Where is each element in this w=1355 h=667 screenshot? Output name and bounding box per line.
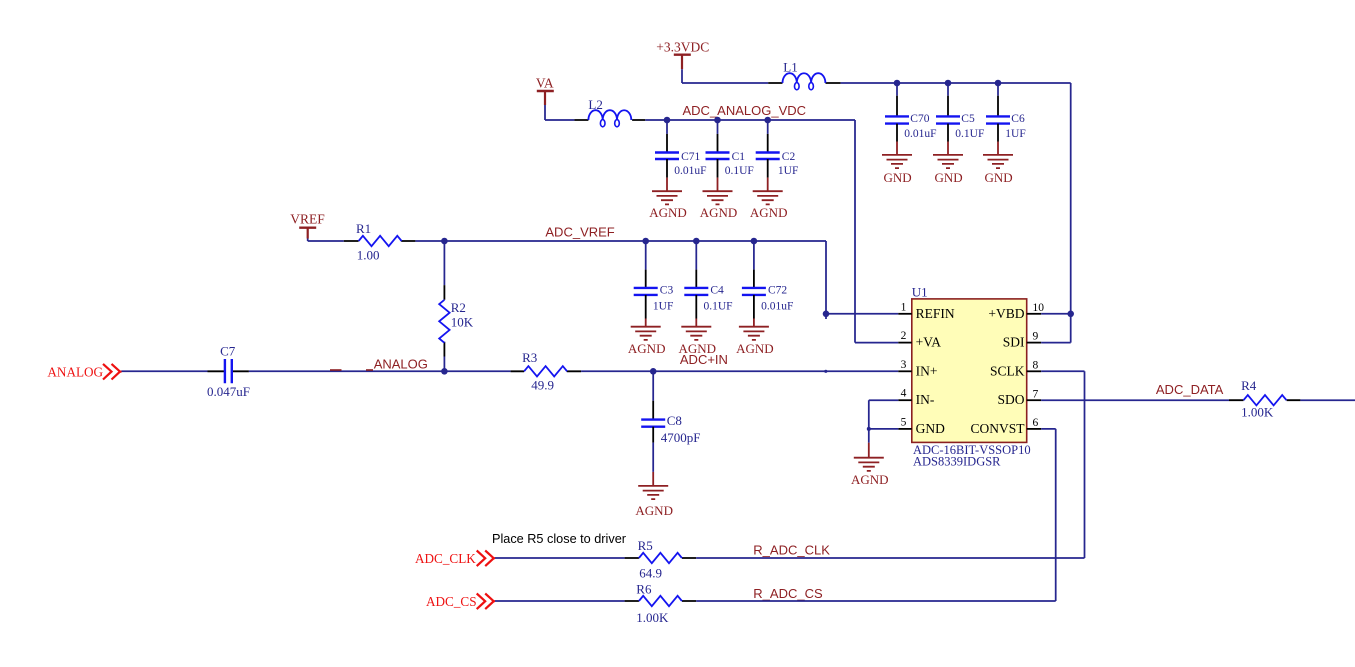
svg-text:GND: GND <box>985 170 1013 185</box>
svg-text:C5: C5 <box>961 113 975 125</box>
svg-text:7: 7 <box>1033 388 1039 400</box>
wire top rail right of L1 <box>841 82 1071 84</box>
svg-text:9: 9 <box>1033 331 1039 343</box>
svg-text:0.047uF: 0.047uF <box>207 384 250 399</box>
capacitor C4 <box>684 241 732 319</box>
port ANALOG <box>47 364 121 380</box>
resistor R4 <box>1229 378 1300 419</box>
wire ANALOG to C7 <box>122 370 208 372</box>
port ADC_CS <box>426 594 495 610</box>
pin 4 IN- <box>898 388 935 408</box>
junction ADC_VREF at R2 <box>441 238 448 245</box>
wire C8 to AGND <box>652 443 654 472</box>
svg-text:ADC_ANALOG_VDC: ADC_ANALOG_VDC <box>683 103 807 118</box>
wire +VBD to rail <box>1041 313 1071 315</box>
capacitor C70 <box>885 83 937 142</box>
resistor R2 <box>439 241 474 371</box>
svg-text:SCLK: SCLK <box>990 363 1025 378</box>
svg-text:C72: C72 <box>768 285 787 297</box>
svg-text:ADS8339IDGSR: ADS8339IDGSR <box>913 455 1001 469</box>
junction REFIN corner <box>823 311 830 318</box>
svg-text:IN+: IN+ <box>916 363 938 378</box>
inductor L1 <box>768 60 840 90</box>
junction ADC+IN at C8 <box>650 368 657 375</box>
capacitor C2 <box>756 120 799 178</box>
svg-text:ANALOG: ANALOG <box>47 364 103 379</box>
svg-text:AGND: AGND <box>851 472 889 487</box>
ground AGND under C71 <box>649 178 687 221</box>
pin 6 CONVST <box>970 417 1041 436</box>
svg-text:1UF: 1UF <box>653 300 673 312</box>
svg-text:6: 6 <box>1033 417 1039 429</box>
ground GND under C6 <box>983 142 1013 186</box>
junction top rail at C70 <box>894 80 901 87</box>
capacitor C71 <box>655 120 706 178</box>
svg-text:+VBD: +VBD <box>988 306 1024 321</box>
wire R_ADC_CS <box>696 600 1055 602</box>
svg-text:R4: R4 <box>1241 378 1257 393</box>
wire IN- / GND to AGND <box>869 400 899 443</box>
svg-text:10: 10 <box>1033 302 1045 314</box>
pin 9 SDI <box>1003 331 1041 350</box>
inductor L2 <box>574 97 645 127</box>
pin 8 SCLK <box>990 359 1041 378</box>
svg-text:C1: C1 <box>732 151 746 163</box>
svg-text:SDI: SDI <box>1003 335 1025 350</box>
wire top rail left of L1 <box>682 82 768 84</box>
svg-text:IN-: IN- <box>916 392 935 407</box>
svg-text:R6: R6 <box>636 582 652 597</box>
ground AGND under C1 <box>700 178 738 221</box>
capacitor C7 <box>207 344 250 399</box>
svg-text:0.01uF: 0.01uF <box>761 300 793 312</box>
pin 3 IN+ <box>898 359 937 379</box>
junction top rail at C6 <box>995 80 1002 87</box>
junction +VBD <box>1067 311 1074 318</box>
svg-text:GND: GND <box>916 421 945 436</box>
ground AGND under C3 <box>628 319 666 356</box>
svg-text:4: 4 <box>901 388 907 400</box>
svg-text:R5: R5 <box>638 538 653 553</box>
svg-text:C70: C70 <box>910 113 929 125</box>
capacitor C8 <box>641 371 700 445</box>
junction VDC rail at C2 <box>764 117 771 124</box>
node small dot on ADC+IN <box>824 370 827 373</box>
capacitor C5 <box>936 83 984 142</box>
svg-text:AGND: AGND <box>635 503 673 518</box>
svg-text:ADC_CS: ADC_CS <box>426 594 477 609</box>
svg-text:GND: GND <box>935 170 963 185</box>
svg-text:+VA: +VA <box>916 335 942 350</box>
ground AGND under C2 <box>750 178 788 221</box>
svg-text:SDO: SDO <box>997 392 1024 407</box>
svg-text:U1: U1 <box>912 285 928 300</box>
junction ADC_VREF at C3 <box>642 238 649 245</box>
port ADC_CLK <box>415 551 495 567</box>
svg-text:C4: C4 <box>710 285 724 297</box>
svg-text:C7: C7 <box>220 344 236 359</box>
svg-text:0.1UF: 0.1UF <box>955 128 984 140</box>
svg-text:+3.3VDC: +3.3VDC <box>656 39 709 54</box>
wire REFIN <box>826 313 898 315</box>
svg-text:C6: C6 <box>1011 113 1025 125</box>
resistor R1 <box>344 221 416 263</box>
svg-text:0.1UF: 0.1UF <box>704 300 733 312</box>
svg-text:AGND: AGND <box>700 205 738 220</box>
svg-text:AGND: AGND <box>750 205 788 220</box>
svg-text:CONVST: CONVST <box>970 421 1025 436</box>
svg-text:3: 3 <box>901 359 907 371</box>
svg-text:AGND: AGND <box>628 341 666 356</box>
resistor R3 <box>511 350 581 393</box>
junction VDC rail at C1 <box>714 117 721 124</box>
svg-text:4700pF: 4700pF <box>661 430 701 445</box>
pin 2 +VA <box>898 330 941 350</box>
svg-text:R_ADC_CS: R_ADC_CS <box>753 586 823 601</box>
wire +3.3VDC stem <box>681 69 683 83</box>
svg-text:ADC_VREF: ADC_VREF <box>545 225 614 240</box>
wire ADC_ANALOG_VDC rail <box>645 120 898 343</box>
svg-text:C2: C2 <box>782 151 796 163</box>
IC U1 body <box>912 285 1031 469</box>
svg-text:ADC_DATA: ADC_DATA <box>1156 382 1224 397</box>
svg-text:2: 2 <box>901 330 907 342</box>
resistor R5 <box>625 538 697 580</box>
svg-text:R2: R2 <box>451 300 466 315</box>
wire VA stem <box>545 105 574 120</box>
ground AGND under C8 <box>635 472 673 518</box>
power VREF <box>290 212 325 239</box>
svg-text:1: 1 <box>901 301 907 313</box>
junction IN- GND <box>867 427 871 431</box>
svg-text:VA: VA <box>536 76 554 91</box>
svg-text:ADC+IN: ADC+IN <box>680 352 728 367</box>
svg-text:REFIN: REFIN <box>916 306 955 321</box>
wire SDO / ADC_DATA <box>1041 399 1229 401</box>
svg-text:1UF: 1UF <box>778 165 798 177</box>
svg-text:C3: C3 <box>660 285 674 297</box>
resistor R6 <box>625 582 697 626</box>
svg-text:0.01uF: 0.01uF <box>674 165 706 177</box>
wire SDI <box>1041 342 1071 344</box>
ground GND under C70 <box>882 142 912 186</box>
svg-text:Place R5 close to driver: Place R5 close to driver <box>492 532 627 546</box>
svg-text:1.00K: 1.00K <box>636 610 669 625</box>
junction top rail at C5 <box>945 80 952 87</box>
power VA <box>536 76 554 105</box>
svg-text:R3: R3 <box>522 350 537 365</box>
svg-text:49.9: 49.9 <box>531 378 554 393</box>
pin 1 REFIN <box>898 301 955 321</box>
pin 10 +VBD <box>988 302 1044 321</box>
wire ADC_CLK to R5 <box>495 557 625 559</box>
ground GND under C5 <box>933 142 963 186</box>
svg-text:GND: GND <box>884 170 912 185</box>
ground AGND at pin5 <box>851 443 889 487</box>
junction ADC_VREF at C72 <box>751 238 758 245</box>
svg-text:R1: R1 <box>356 221 371 236</box>
wire SCLK <box>1041 371 1084 558</box>
svg-text:1UF: 1UF <box>1005 128 1025 140</box>
svg-text:VREF: VREF <box>290 212 325 227</box>
wire ADC_VREF rail <box>415 241 826 319</box>
svg-text:C71: C71 <box>681 151 700 163</box>
wire VREF to R1 <box>308 239 344 242</box>
pin 5 GND <box>898 416 945 436</box>
svg-text:0.01uF: 0.01uF <box>904 128 936 140</box>
capacitor C1 <box>706 120 754 178</box>
ground AGND under C4 <box>679 319 717 356</box>
junction ADC_VREF at C4 <box>693 238 700 245</box>
svg-text:1.00: 1.00 <box>357 248 380 263</box>
svg-text:ANALOG: ANALOG <box>374 356 428 371</box>
wire ADC_DATA out <box>1300 399 1355 401</box>
net tick mark 1 <box>330 369 342 371</box>
wire ADC_CS to R6 <box>495 600 625 602</box>
ground AGND under C72 <box>736 319 774 356</box>
svg-text:AGND: AGND <box>736 341 774 356</box>
capacitor C6 <box>986 83 1026 142</box>
wire ANALOG net to R3 <box>249 370 511 372</box>
wire vertical to +VBD/SDI <box>1070 83 1072 343</box>
svg-text:C8: C8 <box>667 413 682 428</box>
svg-text:0.1UF: 0.1UF <box>725 165 754 177</box>
svg-text:ADC_CLK: ADC_CLK <box>415 551 476 566</box>
svg-text:8: 8 <box>1033 359 1039 371</box>
capacitor C3 <box>634 241 674 319</box>
wire R_ADC_CLK <box>696 557 1084 559</box>
junction ANALOG at R2 <box>441 368 448 375</box>
wire ADC+IN to pin 3 <box>581 370 898 372</box>
capacitor C72 <box>742 241 793 319</box>
svg-text:10K: 10K <box>451 315 474 330</box>
wire CONVST <box>1041 429 1056 601</box>
svg-text:64.9: 64.9 <box>639 565 662 580</box>
svg-text:R_ADC_CLK: R_ADC_CLK <box>753 542 830 557</box>
svg-text:AGND: AGND <box>649 205 687 220</box>
pin 7 SDO <box>997 388 1041 407</box>
net tick mark 2 <box>366 369 373 371</box>
svg-text:1.00K: 1.00K <box>1241 404 1274 419</box>
power +3.3VDC <box>656 39 709 69</box>
svg-text:5: 5 <box>901 416 907 428</box>
junction VDC rail at C71 <box>664 117 671 124</box>
